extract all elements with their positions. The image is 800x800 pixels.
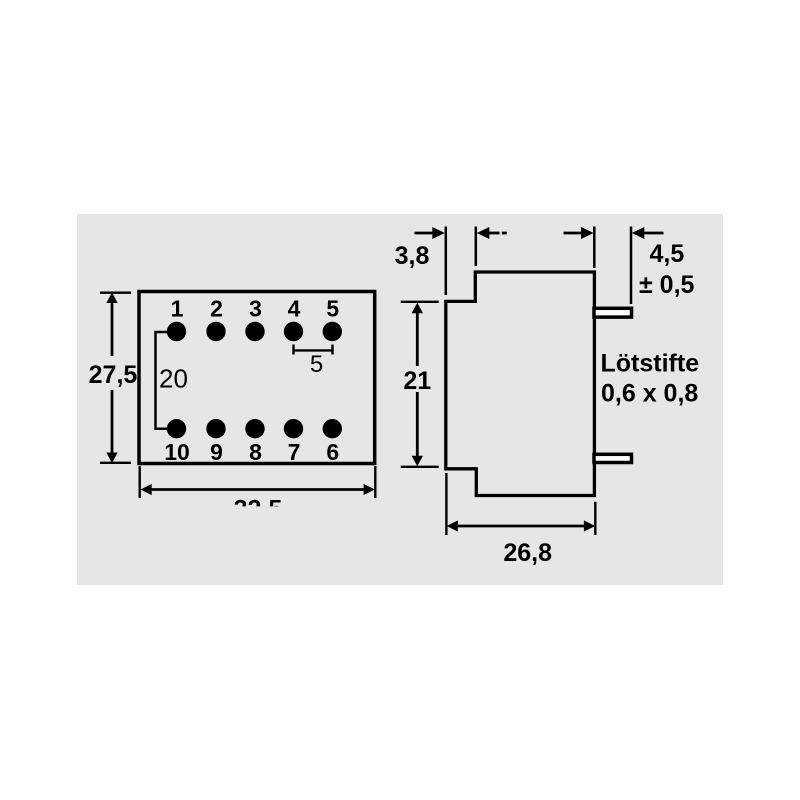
dimension 27,5 extension line bottom bbox=[100, 462, 131, 464]
svg-text:0,6 x 0,8: 0,6 x 0,8 bbox=[601, 379, 698, 407]
svg-text:9: 9 bbox=[210, 439, 223, 465]
dimension 4,5 arrows bbox=[564, 227, 664, 239]
svg-text:3,8: 3,8 bbox=[395, 242, 430, 270]
dimension 21 extension line bottom bbox=[401, 466, 439, 468]
dimension 4,5 extension line left (body edge) bbox=[593, 227, 596, 269]
footprint body outline (top view, left figure) bbox=[139, 292, 375, 464]
svg-text:2: 2 bbox=[210, 296, 223, 322]
gray drawing panel background bbox=[77, 214, 723, 585]
pin 5 pad bbox=[323, 322, 342, 341]
transformer side view outline (right figure) bbox=[446, 272, 595, 496]
svg-text:5: 5 bbox=[326, 296, 339, 322]
svg-text:4: 4 bbox=[288, 296, 301, 322]
label 32,5 (clipped at panel seam) bbox=[234, 496, 283, 524]
svg-text:10: 10 bbox=[164, 439, 190, 465]
dimension 32,5 line with arrows bbox=[141, 484, 375, 495]
svg-text:26,8: 26,8 bbox=[503, 539, 552, 567]
dimension 4,5 extension line right (pin end) bbox=[630, 227, 633, 305]
dimension 27,5 line with arrows bbox=[106, 293, 117, 464]
dimension 3,8 extension line left bbox=[445, 227, 448, 296]
svg-text:4,5: 4,5 bbox=[650, 240, 685, 268]
dimension 3,8 arrows bbox=[415, 227, 507, 239]
svg-text:6: 6 bbox=[326, 439, 339, 465]
svg-text:20: 20 bbox=[159, 363, 188, 393]
dimension 3,8 extension line right bbox=[475, 227, 478, 267]
dimension 20 bracket bbox=[156, 332, 168, 429]
pin 2 pad bbox=[206, 322, 225, 341]
pin 6 pad bbox=[323, 419, 342, 438]
solder pin lower bbox=[594, 454, 632, 462]
dimension 26,8 extension line right bbox=[594, 502, 596, 535]
pin 8 pad bbox=[245, 419, 264, 438]
dimension 21 line with arrows bbox=[412, 303, 423, 467]
pin 10 pad bbox=[167, 419, 186, 438]
svg-text:± 0,5: ± 0,5 bbox=[639, 271, 695, 299]
dimension 5 pitch line bbox=[294, 345, 333, 355]
pin 9 pad bbox=[206, 419, 225, 438]
pin 4 pad bbox=[284, 322, 303, 341]
svg-text:Lötstifte: Lötstifte bbox=[601, 350, 700, 378]
dimension 32,5 extension line left bbox=[138, 466, 140, 498]
pin 1 pad bbox=[167, 322, 186, 341]
svg-text:27,5: 27,5 bbox=[89, 361, 138, 389]
svg-text:5: 5 bbox=[310, 351, 323, 378]
dimension 27,5 extension line top bbox=[100, 292, 131, 294]
dimension 26,8 extension line left bbox=[445, 473, 447, 535]
dimension 26,8 line with arrows bbox=[447, 520, 595, 531]
dimension 32,5 extension line right bbox=[374, 466, 376, 498]
svg-text:3: 3 bbox=[249, 296, 262, 322]
svg-text:7: 7 bbox=[288, 439, 301, 465]
svg-text:1: 1 bbox=[171, 296, 184, 322]
solder pin upper bbox=[594, 308, 632, 317]
pin 3 pad bbox=[245, 322, 264, 341]
pin 7 pad bbox=[284, 419, 303, 438]
svg-text:21: 21 bbox=[403, 367, 431, 395]
svg-text:8: 8 bbox=[249, 439, 262, 465]
dimension 21 extension line top bbox=[401, 301, 439, 303]
